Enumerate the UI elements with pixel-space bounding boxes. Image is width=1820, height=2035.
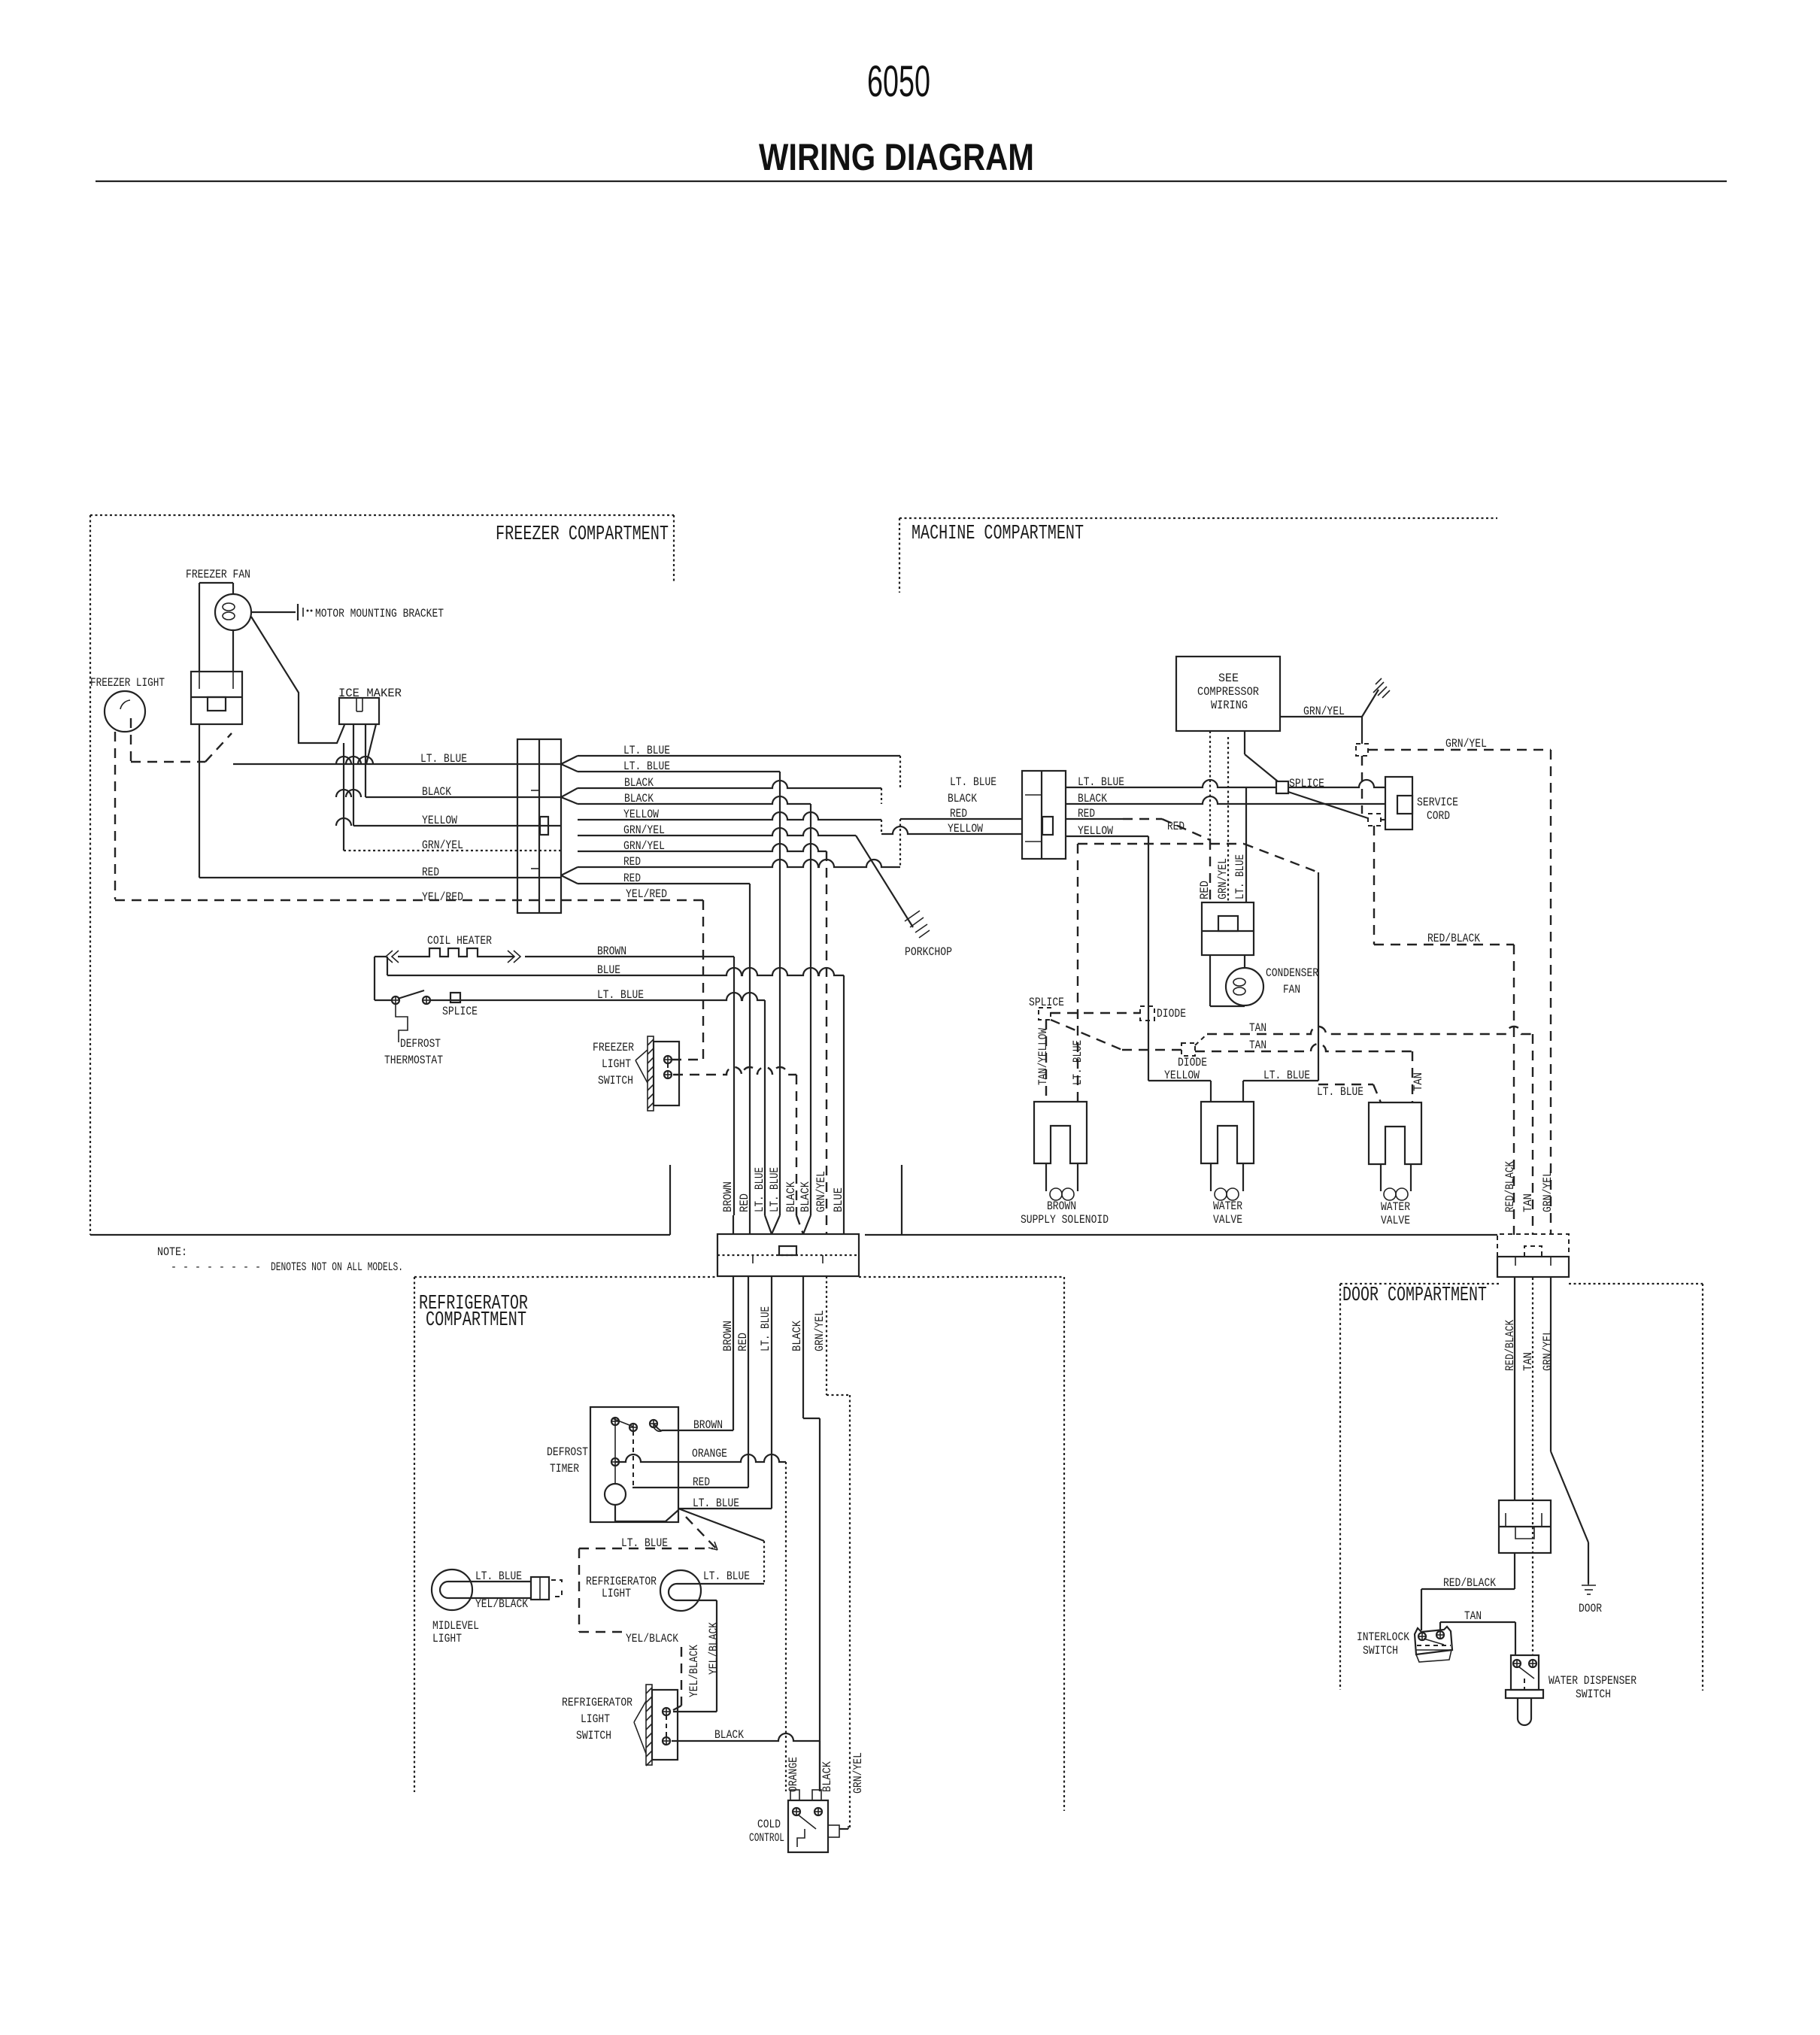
wire BROWN (timer switch) <box>654 1424 662 1430</box>
service cord label <box>1417 796 1458 823</box>
wire BROWN (coil heater to CN3) <box>375 957 734 1215</box>
wire TAN dashed (to door connector) <box>1195 1027 1533 1235</box>
motor mounting bracket symbol <box>251 604 313 620</box>
svg-text:RED: RED <box>738 1193 751 1212</box>
door compartment border <box>1340 1284 1703 1691</box>
wire YELLOW (ice maker to CN1) <box>346 724 561 826</box>
svg-text:LT. BLUE: LT. BLUE <box>475 1569 522 1583</box>
svg-text:LT. BLUE: LT. BLUE <box>1317 1085 1363 1099</box>
svg-text:GRN/YEL: GRN/YEL <box>1541 1330 1555 1371</box>
svg-text:SUPPLY SOLENOID: SUPPLY SOLENOID <box>1021 1213 1109 1227</box>
svg-text:YEL/BLACK: YEL/BLACK <box>475 1597 528 1611</box>
svg-text:BROWN: BROWN <box>597 945 626 958</box>
door harness labels lower <box>1503 1320 1555 1371</box>
wire TAN (interlock to dispenser switch) <box>1440 1622 1515 1655</box>
wire LT. BLUE (CN3 to defrost timer) <box>678 1276 772 1509</box>
wire GRN/YEL (CN4 to door ground) <box>1551 1278 1588 1584</box>
refrigerator light switch <box>634 1685 678 1766</box>
svg-text:LT. BLUE: LT. BLUE <box>1233 854 1247 899</box>
svg-text:GRN/YEL: GRN/YEL <box>814 1171 828 1212</box>
svg-text:RED: RED <box>1078 807 1095 820</box>
svg-text:MIDLEVEL: MIDLEVEL <box>432 1619 479 1633</box>
svg-text:RED/BLACK: RED/BLACK <box>1427 932 1480 945</box>
wire GRN/YEL (compressor to ground) <box>1280 690 1379 717</box>
svg-text:SPLICE: SPLICE <box>1289 777 1324 790</box>
svg-text:SWITCH: SWITCH <box>1576 1688 1611 1701</box>
svg-text:TAN: TAN <box>1249 1039 1266 1052</box>
refrigerator light <box>660 1570 701 1611</box>
svg-text:LT. BLUE: LT. BLUE <box>420 752 467 766</box>
svg-text:COLD: COLD <box>757 1818 781 1831</box>
wire TAN dotted (CN4 to dispenser switch) <box>1532 1278 1533 1655</box>
refrigerator light label <box>586 1575 657 1600</box>
svg-text:COIL HEATER: COIL HEATER <box>427 934 492 948</box>
svg-text:LIGHT: LIGHT <box>432 1632 462 1645</box>
ice maker <box>339 698 379 724</box>
svg-text:LT. BLUE: LT. BLUE <box>703 1569 750 1583</box>
bundle labels above CN3 <box>721 1167 845 1212</box>
wire GRN/YEL dotted (to relay) <box>1227 737 1229 902</box>
wire BLACK (CN2 to service cord) <box>1066 796 1385 804</box>
svg-text:RED: RED <box>422 866 439 879</box>
svg-text:YEL/BLACK: YEL/BLACK <box>626 1632 678 1645</box>
wire LT. BLUE (midlevel to connector) <box>472 1581 531 1582</box>
wire LT. BLUE (CN2 to service cord) <box>1066 780 1385 787</box>
wire LT. BLUE (to relay) <box>1245 787 1247 902</box>
svg-text:BLACK: BLACK <box>948 792 977 805</box>
svg-text:DOOR COMPARTMENT: DOOR COMPARTMENT <box>1342 1284 1487 1307</box>
condenser fan label <box>1266 966 1318 996</box>
svg-text:BLACK: BLACK <box>790 1321 804 1351</box>
svg-text:RED: RED <box>623 855 641 869</box>
midlevel light <box>432 1569 472 1610</box>
svg-text:LT. BLUE: LT. BLUE <box>693 1497 739 1510</box>
svg-text:LT. BLUE: LT. BLUE <box>1071 1040 1084 1085</box>
see compressor wiring box <box>1176 657 1280 731</box>
svg-text:GRN/YEL: GRN/YEL <box>422 839 463 852</box>
wire pair RED fanout <box>561 867 578 884</box>
wire stubs into CN3 <box>733 1215 844 1234</box>
water valve 1 <box>1201 1102 1254 1200</box>
svg-text:BLUE: BLUE <box>597 963 620 977</box>
freezer light switch <box>635 1036 679 1111</box>
svg-text:LIGHT: LIGHT <box>602 1587 631 1600</box>
wire YEL/BLACK dashed (loop to light switch) <box>579 1632 681 1710</box>
svg-text:- - - - - - - -: - - - - - - - - <box>171 1260 261 1274</box>
svg-text:DEFROST: DEFROST <box>400 1037 441 1051</box>
svg-text:LT. BLUE: LT. BLUE <box>753 1167 766 1212</box>
svg-text:LT. BLUE: LT. BLUE <box>597 988 644 1002</box>
svg-text:TAN: TAN <box>1521 1193 1535 1212</box>
svg-text:CONDENSER: CONDENSER <box>1266 966 1318 980</box>
water dispenser switch <box>1506 1655 1543 1725</box>
svg-text:LT. BLUE: LT. BLUE <box>1078 775 1124 789</box>
wire LT. BLUE (timer to refrigerator light) <box>678 1509 764 1584</box>
svg-text:NOTE:: NOTE: <box>157 1245 187 1259</box>
splice S1 <box>450 993 460 1002</box>
svg-text:FREEZER COMPARTMENT: FREEZER COMPARTMENT <box>496 523 669 546</box>
svg-text:ORANGE: ORANGE <box>787 1757 800 1792</box>
svg-text:SERVICE: SERVICE <box>1417 796 1458 809</box>
svg-text:FREEZER FAN: FREEZER FAN <box>186 568 250 581</box>
inline connector midlevel <box>531 1577 562 1600</box>
svg-text:LIGHT: LIGHT <box>581 1712 610 1726</box>
svg-text:BLACK: BLACK <box>1078 792 1107 805</box>
defrost thermostat label <box>384 1037 443 1067</box>
connector CN1 freezer <box>517 739 561 913</box>
wire LT. BLUE (CN1 to CN2 jog) <box>578 756 900 787</box>
midlevel light label <box>432 1619 479 1645</box>
machine compartment bottom border <box>865 1165 1497 1235</box>
wire BLACK (CN1 to CN3) <box>578 796 811 1215</box>
freezer fan motor <box>215 594 251 630</box>
svg-text:GRN/YEL: GRN/YEL <box>1216 858 1230 899</box>
wire GRN/YEL (CN1 to CN3) <box>578 844 827 1215</box>
svg-text:GRN/YEL: GRN/YEL <box>813 1310 827 1351</box>
svg-text:LT. BLUE: LT. BLUE <box>950 775 996 789</box>
svg-text:BLACK: BLACK <box>624 776 654 790</box>
service cord <box>1385 777 1412 829</box>
svg-text:BROWN: BROWN <box>1047 1199 1076 1213</box>
machine compartment border <box>899 518 1497 593</box>
wire TAN dashed (diode to water valve 2) <box>1195 1044 1412 1102</box>
svg-text:YELLOW: YELLOW <box>948 822 983 836</box>
brown supply solenoid <box>1034 1102 1087 1200</box>
svg-text:DENOTES NOT ON ALL MODELS.: DENOTES NOT ON ALL MODELS. <box>271 1260 403 1274</box>
svg-text:BLACK: BLACK <box>799 1181 812 1212</box>
svg-text:DEFROST: DEFROST <box>547 1445 588 1459</box>
diode D2 <box>1181 1043 1195 1056</box>
service cord connector dashed <box>1368 814 1381 826</box>
svg-text:BLACK: BLACK <box>422 785 451 799</box>
svg-text:TAN/YELLOW: TAN/YELLOW <box>1036 1028 1050 1085</box>
svg-text:SEE: SEE <box>1218 672 1239 685</box>
defrost timer <box>590 1407 678 1522</box>
svg-text:CORD: CORD <box>1427 809 1450 823</box>
svg-text:GRN/YEL: GRN/YEL <box>1541 1171 1555 1212</box>
svg-text:LIGHT: LIGHT <box>602 1057 631 1071</box>
svg-text:FREEZER: FREEZER <box>593 1041 634 1054</box>
splice S4 <box>1039 1008 1051 1020</box>
diode D1 <box>1140 1006 1154 1021</box>
ice maker pin leads <box>344 724 376 851</box>
svg-text:MOTOR MOUNTING BRACKET: MOTOR MOUNTING BRACKET <box>315 607 444 620</box>
svg-text:MACHINE COMPARTMENT: MACHINE COMPARTMENT <box>912 523 1084 545</box>
svg-text:YELLOW: YELLOW <box>422 814 457 827</box>
svg-text:COMPARTMENT: COMPARTMENT <box>426 1309 526 1332</box>
svg-text:RED: RED <box>736 1333 750 1351</box>
cold control label <box>749 1818 784 1845</box>
wire BLACK (CN3 to cold control) <box>803 1276 820 1791</box>
svg-text:BLUE: BLUE <box>832 1187 845 1212</box>
svg-text:PORKCHOP: PORKCHOP <box>905 945 952 959</box>
wire RED (CN1 to CN2 jog) <box>578 819 1022 867</box>
wire BLUE (coil heater to CN3) <box>387 957 844 1215</box>
wire RED (CN1 to CN3) <box>578 884 750 1215</box>
svg-text:SPLICE: SPLICE <box>442 1005 478 1018</box>
wire pair merge LT. BLUE into CN3 <box>765 1215 780 1234</box>
condenser fan motor <box>1210 955 1263 1006</box>
relay lead labels <box>1198 854 1247 899</box>
svg-text:GRN/YEL: GRN/YEL <box>623 823 665 837</box>
freezer light switch label <box>593 1041 634 1087</box>
svg-text:YELLOW: YELLOW <box>1078 824 1113 838</box>
svg-text:YEL/BLACK: YEL/BLACK <box>687 1645 701 1697</box>
wire LT. BLUE dashed (timer to midlevel loop) <box>579 1517 717 1632</box>
svg-text:DOOR: DOOR <box>1579 1602 1602 1615</box>
wire LT. BLUE (light to timer drop) <box>701 1583 764 1585</box>
svg-text:ORANGE: ORANGE <box>692 1447 727 1460</box>
wire (splice to service cord connector) <box>1288 792 1385 820</box>
svg-text:RED/BLACK: RED/BLACK <box>1503 1161 1517 1212</box>
svg-text:RED: RED <box>1198 881 1212 899</box>
svg-text:YEL/RED: YEL/RED <box>422 890 463 904</box>
brown supply solenoid label <box>1021 1199 1109 1227</box>
svg-text:WATER: WATER <box>1381 1200 1410 1214</box>
svg-text:WIRING DIAGRAM: WIRING DIAGRAM <box>759 136 1034 178</box>
compressor relay <box>1202 902 1254 955</box>
interlock switch <box>1415 1627 1452 1662</box>
wire freezer light dashed leads <box>115 718 232 899</box>
door heater box <box>1499 1500 1551 1553</box>
wire dashed (splice to diode D2) <box>1051 1020 1181 1050</box>
svg-text:SPLICE: SPLICE <box>1029 996 1064 1009</box>
refrigerator compartment border <box>414 1277 1064 1811</box>
svg-text:TIMER: TIMER <box>550 1462 579 1475</box>
wire LT. BLUE (CN1 to CN3) <box>578 772 780 1215</box>
wire BLACK (ice maker to CN1) <box>358 724 561 797</box>
connector CN2 machine <box>1022 771 1066 859</box>
coil heater element <box>375 948 734 963</box>
svg-text:WATER DISPENSER: WATER DISPENSER <box>1549 1674 1636 1688</box>
wire GRN/YEL dotted (CN3 to cold control) <box>827 1276 850 1827</box>
svg-text:LT. BLUE: LT. BLUE <box>621 1536 668 1550</box>
svg-text:BROWN: BROWN <box>693 1418 723 1432</box>
svg-text:YELLOW: YELLOW <box>1164 1069 1200 1082</box>
freezer compartment border <box>90 515 674 1235</box>
svg-text:RED: RED <box>623 872 641 885</box>
wire BLACK (CN1 to CN2 jog) <box>578 781 881 804</box>
refrigerator light switch label <box>562 1696 632 1742</box>
svg-text:BROWN: BROWN <box>721 1181 735 1212</box>
svg-text:RED: RED <box>1167 820 1185 833</box>
svg-text:VALVE: VALVE <box>1213 1213 1242 1227</box>
wire RED dashed (to relay) <box>1209 840 1211 902</box>
wire YEL/RED dashed (CN1 to freezer light switch) <box>578 900 703 1060</box>
svg-text:COMPRESSOR: COMPRESSOR <box>1197 685 1259 699</box>
wire RED dashed (CN2 to compressor relay) <box>1066 819 1210 840</box>
svg-text:BROWN: BROWN <box>721 1321 735 1351</box>
svg-text:DIODE: DIODE <box>1178 1056 1207 1069</box>
water valve 1 label <box>1213 1199 1242 1227</box>
svg-text:TAN: TAN <box>1464 1609 1482 1623</box>
svg-text:INTERLOCK: INTERLOCK <box>1357 1630 1409 1644</box>
wire RED/BLACK (heater to interlock switch) <box>1421 1553 1515 1630</box>
wire grn/yel (bracket to ice maker) <box>251 617 344 743</box>
svg-text:TAN: TAN <box>1249 1021 1266 1035</box>
water valve 2 <box>1369 1102 1421 1200</box>
svg-text:SWITCH: SWITCH <box>576 1729 611 1742</box>
wire YELLOW (CN1 to CN2 jog) <box>578 812 1022 834</box>
svg-text:LT. BLUE: LT. BLUE <box>768 1167 781 1212</box>
freezer fan housing <box>199 583 233 672</box>
svg-text:CONTROL: CONTROL <box>749 1831 784 1845</box>
wire ORANGE dotted (timer to cold control) <box>615 1454 786 1791</box>
svg-text:GRN/YEL: GRN/YEL <box>1445 737 1487 751</box>
svg-text:DIODE: DIODE <box>1157 1007 1186 1021</box>
water dispenser switch label <box>1549 1674 1636 1701</box>
svg-text:RED/BLACK: RED/BLACK <box>1443 1576 1496 1590</box>
wire GRN/YEL (CN1 to porkchop) <box>578 828 856 836</box>
svg-text:GRN/YEL: GRN/YEL <box>623 839 665 853</box>
wire to compressor relay leads <box>1210 731 1278 840</box>
svg-text:SWITCH: SWITCH <box>1363 1644 1398 1657</box>
svg-text:LT. BLUE: LT. BLUE <box>623 744 670 757</box>
wire LT. BLUE dashed (to water valve 2) <box>1318 1084 1381 1102</box>
cold control <box>788 1790 839 1852</box>
svg-text:YELLOW: YELLOW <box>623 808 659 821</box>
wire GRN/YEL (porkchop ground to CN1) <box>336 757 561 851</box>
svg-text:BLACK: BLACK <box>784 1181 798 1212</box>
wire YEL/RED dashed (freezer light to CN1) <box>115 899 578 901</box>
note text <box>157 1245 403 1274</box>
splice S3 dashed <box>1356 717 1368 756</box>
wire dashed (splice to service connector) <box>1361 756 1363 814</box>
svg-text:RED: RED <box>950 807 967 820</box>
svg-text:LT. BLUE: LT. BLUE <box>1263 1069 1310 1082</box>
svg-text:LT. BLUE: LT. BLUE <box>759 1306 772 1351</box>
svg-text:BLACK: BLACK <box>624 792 654 805</box>
svg-text:THERMOSTAT: THERMOSTAT <box>384 1054 443 1067</box>
wire YELLOW (CN2 to water valve) <box>1066 836 1211 1102</box>
title underline rule <box>96 180 1727 182</box>
defrost timer label <box>547 1445 588 1475</box>
freezer light <box>105 691 145 732</box>
defrost thermostat <box>375 990 430 1042</box>
svg-text:BLACK: BLACK <box>714 1728 744 1742</box>
wire pair BLACK fanout <box>561 788 578 804</box>
connector CN3 refrigerator harness <box>717 1234 859 1276</box>
wire GRN/YEL into cold control tab <box>839 1826 848 1829</box>
wire RED/BLACK (CN4 to door heater) <box>1514 1278 1515 1500</box>
wire TAN/YELLOW dashed (splice to solenoid) <box>1045 1020 1047 1102</box>
door ground symbol <box>1582 1579 1596 1594</box>
ground symbol (service) <box>1373 678 1390 698</box>
wire pair merge BLACK into CN3 <box>796 1215 811 1234</box>
wire pair LT. BLUE fanout <box>561 756 578 772</box>
svg-text:RED: RED <box>693 1475 710 1489</box>
connector CN4 door <box>1497 1234 1569 1277</box>
porkchop ground wire <box>856 836 930 938</box>
wire RED/BLACK dashed (service cord to door connector) <box>1374 826 1514 1235</box>
interlock switch label <box>1357 1630 1409 1657</box>
door harness labels upper <box>1503 1161 1555 1212</box>
freezer compartment bottom border <box>90 1165 670 1235</box>
wire BLACK dashed (light switch to CN3) <box>673 1067 796 1215</box>
svg-text:FREEZER LIGHT: FREEZER LIGHT <box>90 676 165 690</box>
wire BLACK (light switch to cold control) <box>672 1733 820 1791</box>
svg-text:VALVE: VALVE <box>1381 1214 1410 1227</box>
wire YEL/BLACK (light to switch) <box>673 1600 717 1712</box>
wire LT. BLUE dashed (to solenoid) <box>1078 844 1244 1102</box>
svg-text:TAN: TAN <box>1412 1072 1425 1091</box>
svg-text:LT. BLUE: LT. BLUE <box>623 760 670 773</box>
splice S2 <box>1276 781 1288 793</box>
wire RED (junction box to CN1) <box>199 724 561 878</box>
svg-text:YEL/RED: YEL/RED <box>626 887 667 901</box>
wire dashed (splice to diode D1) <box>1051 1012 1140 1014</box>
svg-text:WATER: WATER <box>1213 1199 1242 1213</box>
wire YEL/BLACK (midlevel to connector) <box>472 1597 531 1599</box>
wire BROWN (CN3 to defrost timer) <box>662 1276 733 1430</box>
svg-text:GRN/YEL: GRN/YEL <box>1303 705 1345 718</box>
wire LT. BLUE (junction box to connector CN1) <box>233 763 561 765</box>
svg-text:REFRIGERATOR: REFRIGERATOR <box>562 1696 632 1709</box>
svg-text:GRN/YEL: GRN/YEL <box>851 1752 865 1794</box>
wire LT. BLUE (relay area to water valves) <box>1243 844 1318 1102</box>
svg-text:FAN: FAN <box>1283 983 1300 996</box>
svg-text:BLACK: BLACK <box>821 1761 834 1792</box>
svg-text:YEL/BLACK: YEL/BLACK <box>707 1622 720 1675</box>
wire GRN/YEL dashed (splice to door connector) <box>1368 750 1551 1235</box>
svg-text:WIRING: WIRING <box>1211 699 1248 712</box>
lamp junction box <box>191 672 242 724</box>
wire RED (CN3 to defrost timer) <box>632 1276 748 1488</box>
wire LT. BLUE (thermostat to CN3) <box>430 993 765 1215</box>
svg-text:6050: 6050 <box>867 57 930 106</box>
water valve 2 label <box>1381 1200 1410 1227</box>
svg-text:SWITCH: SWITCH <box>598 1074 633 1087</box>
